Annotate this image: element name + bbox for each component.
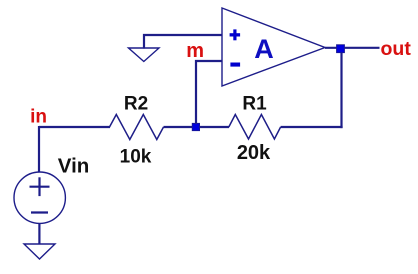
wire: node in down to source Vin bbox=[38, 126, 40, 173]
op-amp non-inverting input plus symbol bbox=[230, 29, 241, 40]
op-amp inverting input minus symbol bbox=[230, 63, 240, 67]
svg-text:20k: 20k bbox=[237, 142, 271, 164]
svg-text:10k: 10k bbox=[120, 146, 152, 167]
resistor R2 zigzag body bbox=[110, 115, 164, 140]
svg-text:A: A bbox=[254, 34, 274, 64]
wire: resistor R1 to feedback corner bbox=[281, 126, 343, 128]
svg-text:m: m bbox=[186, 40, 204, 62]
voltage source plus symbol bbox=[30, 177, 50, 196]
wire: op-amp output to node out bbox=[325, 47, 380, 49]
svg-text:R2: R2 bbox=[124, 94, 148, 115]
svg-text:Vin: Vin bbox=[58, 154, 90, 177]
resistor R1 zigzag body bbox=[229, 115, 281, 140]
wire: feedback vertical from out node down to R1 wire bbox=[340, 48, 342, 128]
svg-text:out: out bbox=[381, 38, 412, 60]
ground symbol at op-amp + input (open triangle) bbox=[129, 48, 160, 62]
wire: resistor R2 to node m-junction bbox=[164, 126, 197, 128]
wire: inverting input from node m corner bbox=[196, 61, 222, 124]
svg-text:in: in bbox=[30, 107, 47, 128]
voltage source minus symbol bbox=[31, 211, 48, 213]
wire: junction to resistor R1 bbox=[199, 126, 229, 128]
op-amp U1 triangle body bbox=[222, 8, 325, 86]
svg-text:R1: R1 bbox=[242, 94, 267, 115]
ground symbol below source (open triangle) bbox=[24, 244, 55, 259]
node out junction (blue square) bbox=[337, 45, 345, 53]
node junction at R2/R1/feedback (blue square) bbox=[192, 123, 199, 130]
wire: node in to resistor R2 (horizontal, y=127) bbox=[39, 126, 110, 128]
voltage source V1 circle bbox=[14, 172, 65, 223]
wire: source Vin bottom to ground bbox=[38, 223, 40, 244]
wire: non-inverting input to ground corner bbox=[144, 35, 222, 49]
